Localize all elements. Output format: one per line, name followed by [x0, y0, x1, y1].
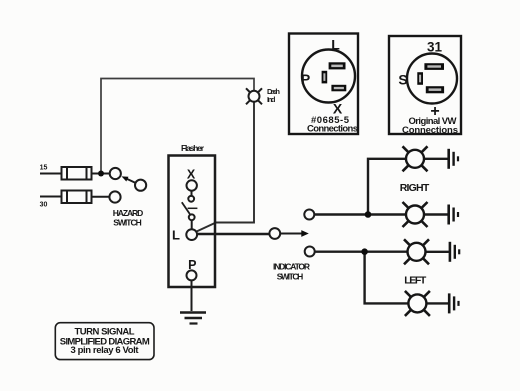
svg-text:INDICATOR: INDICATOR — [273, 261, 310, 271]
svg-text:Connections: Connections — [307, 123, 358, 134]
svg-text:Ind: Ind — [267, 95, 276, 104]
svg-text:LEFT: LEFT — [404, 274, 427, 286]
svg-text:Connections: Connections — [402, 125, 458, 136]
svg-text:RIGHT: RIGHT — [400, 182, 430, 194]
svg-text:3 pin relay 6 Volt: 3 pin relay 6 Volt — [71, 345, 140, 356]
svg-text:L: L — [331, 37, 340, 53]
svg-text:L: L — [172, 227, 180, 242]
svg-text:30: 30 — [40, 202, 48, 209]
svg-text:X: X — [187, 168, 196, 182]
svg-text:P: P — [301, 71, 310, 87]
svg-text:Flasher: Flasher — [181, 143, 205, 153]
svg-text:SWITCH: SWITCH — [113, 218, 142, 228]
svg-text:SWITCH: SWITCH — [277, 271, 304, 281]
svg-text:S: S — [398, 72, 407, 88]
svg-text:31: 31 — [427, 39, 443, 54]
svg-text:15: 15 — [40, 165, 48, 172]
svg-text:P: P — [188, 258, 196, 272]
svg-text:HAZARD: HAZARD — [113, 208, 144, 218]
